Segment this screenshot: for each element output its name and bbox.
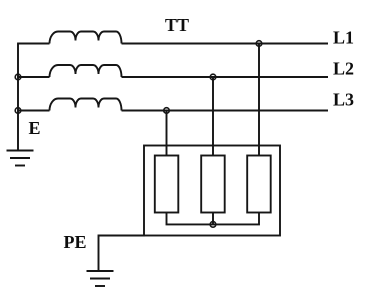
svg-text:E: E [29, 118, 41, 138]
svg-text:L1: L1 [333, 28, 354, 48]
wire: drop from L1 to arrester 3 [258, 44, 260, 156]
node: L2 tap on left bus [15, 74, 21, 80]
wire: line L1 right segment [122, 43, 329, 45]
wire: common bus under arresters [167, 213, 260, 225]
wire: drop from L3 to arrester 1 [166, 111, 168, 156]
wire: line L2 right segment [122, 76, 329, 78]
node: L3 tap to arrester [164, 108, 170, 114]
node: L2 tap to arrester [210, 74, 216, 80]
wire: line L1 left segment [17, 43, 49, 45]
node: common bus junction [210, 222, 216, 228]
svg-text:TT: TT [165, 15, 189, 35]
arrester box outline [144, 146, 280, 236]
wire: line L3 left segment [17, 110, 49, 112]
arrester element 2 [201, 156, 225, 213]
arrester element 1 [155, 156, 179, 213]
wire: line L3 right segment [122, 110, 329, 112]
arrester element 3 [247, 156, 271, 213]
ground PE [87, 271, 114, 286]
ground E [7, 151, 34, 166]
wire: left vertical bus from L1 down to earth E [17, 44, 19, 151]
node: L1 tap to arrester [256, 41, 262, 47]
node: L3 tap on left bus [15, 108, 21, 114]
wire: arrester 2 stub to common bus [212, 213, 214, 225]
inductor TT winding 3 (line L3) [50, 99, 122, 111]
svg-text:L3: L3 [333, 90, 354, 110]
svg-text:PE: PE [64, 232, 87, 252]
wire: PE conductor to box bottom [99, 235, 146, 237]
inductor TT winding 1 (line L1) [50, 32, 122, 44]
svg-text:L2: L2 [333, 59, 354, 79]
inductor TT winding 2 (line L2) [50, 65, 122, 77]
wire: drop from L2 to arrester 2 [212, 77, 214, 156]
wire: line L2 left segment [17, 76, 49, 78]
wire: PE drop to earth [98, 235, 100, 272]
